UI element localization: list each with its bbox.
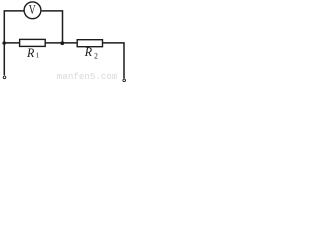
svg-text:V: V [29, 2, 36, 17]
svg-text:1: 1 [36, 50, 40, 59]
svg-text:2: 2 [94, 51, 98, 60]
svg-text:R: R [26, 45, 35, 60]
svg-text:manfen5.com: manfen5.com [57, 71, 118, 82]
svg-text:R: R [84, 45, 93, 60]
